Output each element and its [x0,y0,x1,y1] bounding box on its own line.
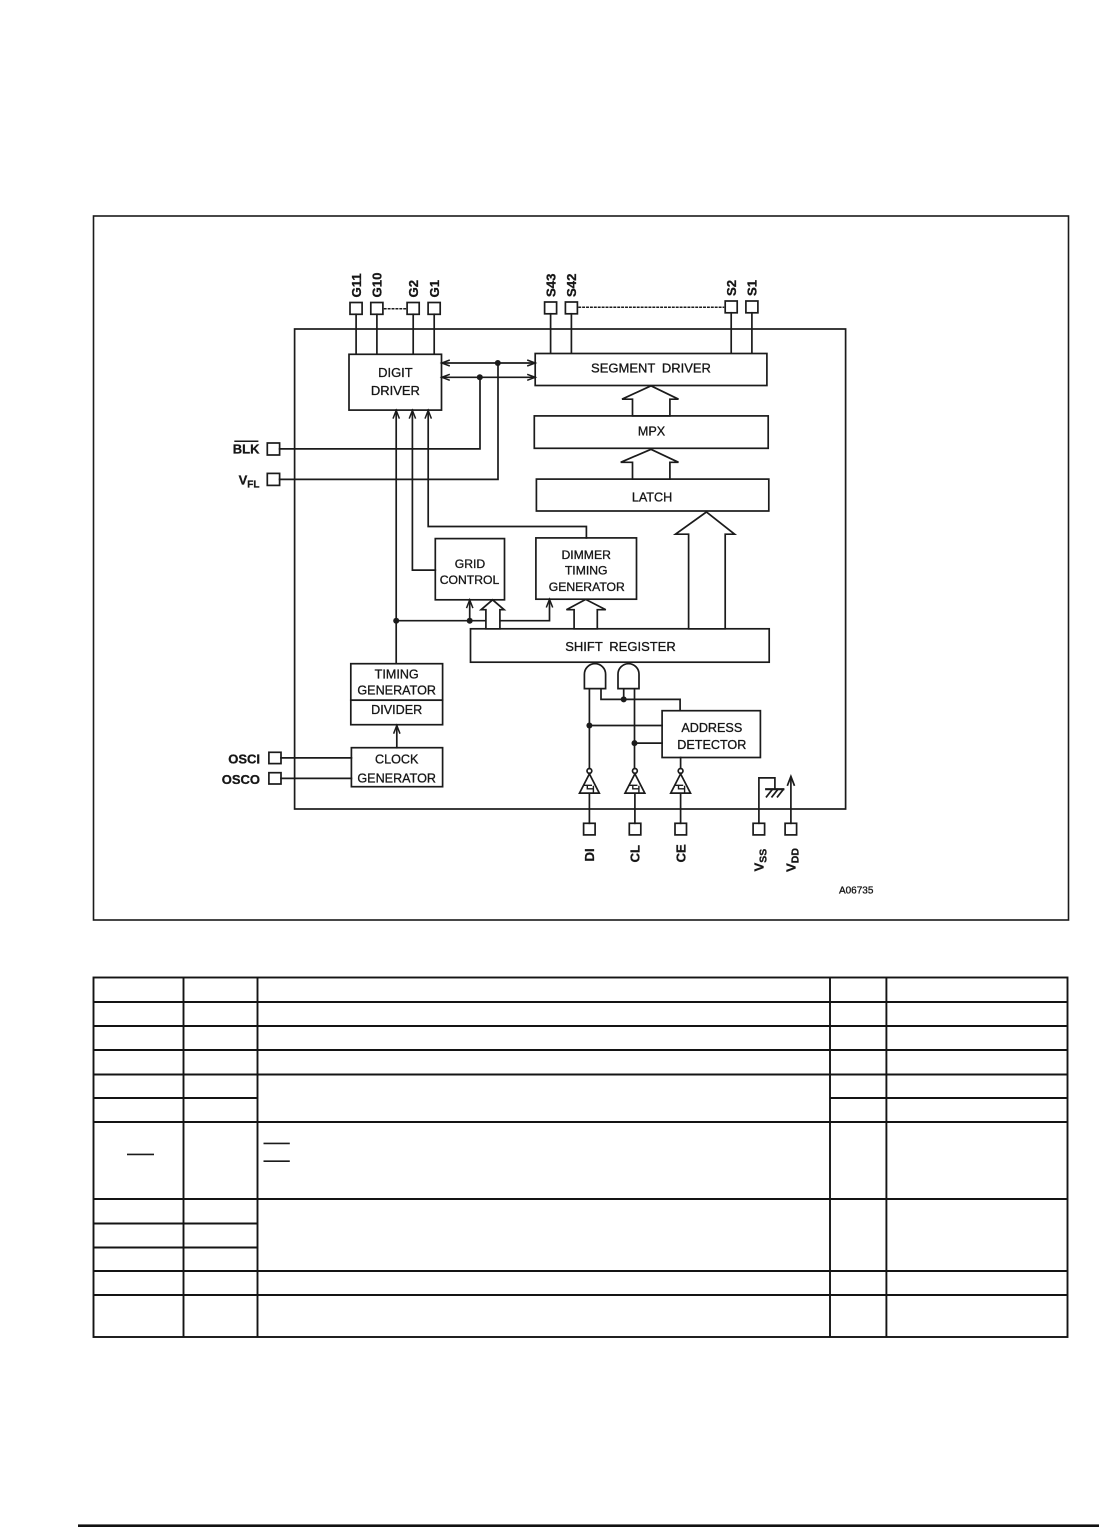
pin CL [629,823,641,835]
table column divider 1 [183,978,185,1338]
table row line 11 [94,1294,1068,1296]
arrowhead into segment driver left upper (right-pointing) [527,360,535,366]
wire gate2 left leg [623,689,625,700]
table row line 1 [94,1001,1068,1003]
wire horizontal feed under grid/dimmer [396,599,549,621]
pin S1 [746,301,758,313]
node branch to grid control [467,618,473,624]
svg-text:A06735: A06735 [839,885,874,896]
wire DI buffer to pin [588,793,590,823]
wire G1 to digit driver [433,314,435,354]
arrowhead into segment driver left lower (right-pointing) [527,374,535,380]
and gate 2 [618,664,639,689]
block CLOCK GENERATOR [351,748,442,787]
pin OSCO [269,773,281,784]
svg-text:DIVIDER: DIVIDER [371,703,422,717]
svg-text:ADDRESS: ADDRESS [681,721,742,735]
buffer DI [587,769,592,774]
svg-text:G10: G10 [370,273,385,298]
svg-text:DIGIT: DIGIT [378,365,413,380]
svg-text:BLK: BLK [233,442,260,457]
table overline mark col1 [127,1153,154,1155]
block MPX [534,416,768,448]
table row line 6 [94,1121,1068,1123]
table row line 8 partial left [94,1223,258,1225]
pin DI [584,823,596,835]
hollow arrow shift register to grid control [481,600,504,629]
arrowhead up into digit driver A [393,410,399,418]
svg-text:DRIVER: DRIVER [371,383,420,398]
pin S2 [725,301,737,313]
block LATCH [536,479,768,511]
wire G10 to digit driver [376,314,378,354]
wire S1 to segment driver [751,313,753,354]
wire DI vertical gate1 to buffer [588,689,590,769]
rotated top pin labels [349,273,760,298]
svg-text:SHIFT REGISTER: SHIFT REGISTER [565,639,676,654]
wire CL vertical gate2 to buffer [634,689,636,769]
svg-text:GENERATOR: GENERATOR [357,771,436,785]
svg-text:OSCO: OSCO [222,772,260,787]
table row line 4 [94,1074,1068,1076]
wire digit driver input A long vertical to timing generator [395,410,397,664]
arrowhead up into digit driver C [425,410,431,418]
svg-text:TIMING: TIMING [375,668,419,682]
svg-text:GENERATOR: GENERATOR [549,580,625,594]
table outer border [94,978,1068,1338]
table row line 9 partial left [94,1247,258,1249]
table row line 5 partial left [94,1097,258,1099]
wire S2 to segment driver [730,313,732,354]
wire CL buffer to pin [634,793,636,823]
arrowhead into digit driver right lower (left-pointing) [442,374,450,380]
svg-text:G11: G11 [349,273,364,297]
ground symbol VSS [766,788,783,790]
svg-text:CLOCK: CLOCK [375,752,419,766]
node CL branch [632,740,638,746]
rotated bottom pin labels [582,844,802,872]
buffer CL [633,769,638,774]
node on lower bus (BLK) [477,374,483,380]
svg-text:S43: S43 [543,274,558,297]
arrowhead into digit driver right upper (left-pointing) [442,360,450,366]
block and pin texts [357,360,873,896]
wire BLK to lower bus [280,377,480,449]
table row line 2 [94,1025,1068,1027]
block SHIFT REGISTER [471,629,770,662]
svg-text:DETECTOR: DETECTOR [677,738,746,752]
svg-text:CL: CL [628,845,643,863]
wire G2 to digit driver [412,314,414,354]
IC inner boundary box [295,329,846,809]
left pin labels [222,441,260,787]
pin VSS [753,823,765,835]
table column divider 3 [829,978,831,1338]
block GRID CONTROL [435,539,504,600]
table row line 5 partial right [830,1097,1068,1099]
svg-text:TIMING: TIMING [565,564,608,578]
block DIVIDER [351,700,443,725]
wire bus digit-segment lower [442,376,536,378]
svg-text:OSCI: OSCI [228,751,260,766]
hollow arrow latch to mpx [621,449,679,479]
table row line 7 [94,1198,1068,1200]
pin BLK [267,443,279,455]
svg-text:CE: CE [673,844,688,863]
block ADDRESS DETECTOR [662,711,760,758]
arrowheads (thin open V) [393,360,553,734]
wire VSS to ground [759,778,775,823]
block SEGMENT DRIVER [535,354,767,386]
pin OSCI [269,752,281,763]
wire OSCI to clock generator [281,757,351,759]
table row line 10 [94,1270,1068,1272]
wire and-gate outputs to address detector [601,689,680,711]
node gate2 left leg [621,696,627,702]
svg-text:DI: DI [582,848,597,861]
hollow arrow shift register to latch [676,512,735,629]
hollow arrow shift register to dimmer timing generator [566,599,605,628]
node DI branch [586,723,592,729]
svg-text:CONTROL: CONTROL [440,573,500,587]
block DIGIT DRIVER [349,354,442,410]
node on upper bus (VFL) [495,360,501,366]
bottom page rule [78,1524,1099,1527]
svg-text:G1: G1 [427,280,442,298]
svg-text:MPX: MPX [638,424,666,438]
wire bus digit-segment upper [442,362,536,364]
wire G11 to digit driver [355,314,357,354]
pin S43 [545,302,557,314]
arrowhead up into grid control [467,600,473,608]
arrowhead up into divider [394,726,400,734]
pin description table [94,978,1068,1338]
block DIMMER TIMING GENERATOR [536,538,637,599]
wire VDD supply arrow [790,778,792,824]
svg-text:S42: S42 [564,274,579,297]
wire branch up to grid control [469,600,471,621]
pin S42 [565,302,577,314]
node on horizontal feed at long vertical [393,618,399,624]
svg-text:SEGMENT DRIVER: SEGMENT DRIVER [591,360,711,375]
pin G1 [428,303,440,315]
svg-text:GRID: GRID [455,557,486,571]
wire OSCO to clock generator [281,777,351,779]
junction dots [393,360,637,746]
arrowhead up into dimmer timing generator [546,599,552,607]
wire DI branch to address detector [589,725,662,727]
wire CE buffer to pin [680,793,682,823]
svg-text:S2: S2 [724,280,739,296]
wire VFL to upper bus [280,363,498,479]
svg-text:LATCH: LATCH [632,490,672,504]
and gate 1 [584,664,605,689]
wire digit driver input C from dimmer timing generator [428,410,586,538]
table row line 3 [94,1049,1068,1051]
table column divider 2 [257,978,259,1338]
pin VFL [267,473,279,485]
block TIMING GENERATOR [351,664,443,701]
pin G11 [350,303,362,315]
thin arrow from clock generator to divider [396,726,398,748]
svg-text:GENERATOR: GENERATOR [357,684,436,698]
buffer CE [678,769,683,774]
svg-text:S1: S1 [745,280,760,296]
pin G2 [407,303,419,315]
hollow arrow mpx to segment driver [622,386,679,416]
wire CE address detector to buffer [680,758,682,769]
table overline mark col3 upper [264,1142,290,1144]
dotted link G10..G2 [385,308,406,310]
wire S43 to segment driver [550,314,552,354]
arrowhead up into digit driver B [409,410,415,418]
svg-text:G2: G2 [406,280,421,298]
pin VDD [785,823,797,835]
table column divider 4 [885,978,887,1338]
svg-text:DIMMER: DIMMER [561,548,611,562]
wire digit driver input B from grid control [412,410,435,570]
wire CL branch to address detector [635,742,663,744]
pin G10 [371,303,383,315]
dotted link S42..S2 [579,306,724,308]
outer figure frame [94,216,1069,920]
wire S42 to segment driver [570,314,572,354]
table overline mark col3 lower [264,1160,290,1162]
pin CE [675,823,687,835]
